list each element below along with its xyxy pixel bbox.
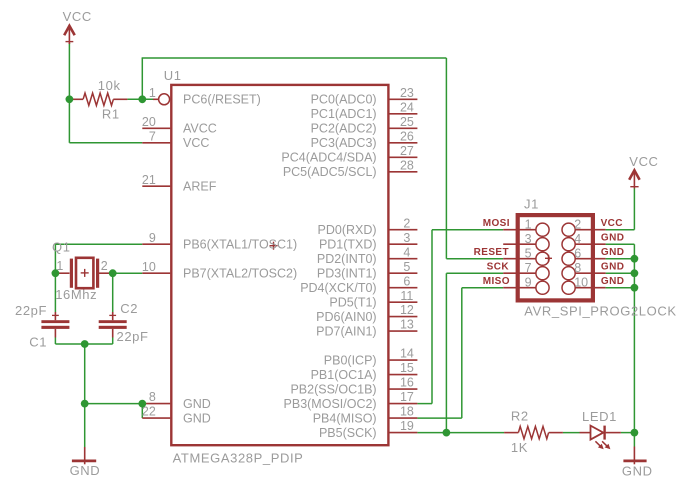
svg-text:3: 3 bbox=[525, 232, 532, 246]
svg-text:VCC: VCC bbox=[601, 218, 623, 229]
svg-text:VCC: VCC bbox=[629, 154, 658, 169]
J1 right pin numbers bbox=[574, 218, 588, 290]
wire GND net stem to ground bbox=[84, 404, 86, 447]
wire C2 bottom to GND net bbox=[112, 338, 114, 345]
wire VCC net right vertical bbox=[633, 189, 635, 230]
svg-text:PD2(INT0): PD2(INT0) bbox=[317, 252, 377, 266]
svg-text:1: 1 bbox=[149, 86, 156, 100]
svg-text:PB7(XTAL2/TOSC2): PB7(XTAL2/TOSC2) bbox=[183, 267, 297, 281]
junction crystal pin1/C1 bbox=[52, 269, 60, 277]
svg-text:PB3(MOSI/OC2): PB3(MOSI/OC2) bbox=[284, 397, 377, 411]
wire XTAL1 horizontal to pin 9 bbox=[55, 243, 142, 245]
svg-text:23: 23 bbox=[400, 86, 414, 100]
svg-text:PC6(/RESET): PC6(/RESET) bbox=[183, 93, 261, 107]
resistor R1 bbox=[69, 93, 127, 105]
svg-text:AVCC: AVCC bbox=[183, 122, 217, 136]
svg-text:GND: GND bbox=[70, 463, 101, 478]
svg-text:GND: GND bbox=[183, 411, 211, 425]
svg-text:4: 4 bbox=[574, 232, 581, 246]
svg-text:PD5(T1): PD5(T1) bbox=[329, 296, 376, 310]
svg-text:7: 7 bbox=[525, 261, 532, 275]
net label SCK bbox=[487, 262, 510, 273]
svg-text:10: 10 bbox=[142, 260, 156, 274]
svg-text:PC3(ADC3): PC3(ADC3) bbox=[311, 136, 377, 150]
svg-text:1: 1 bbox=[525, 218, 532, 232]
label R1 bbox=[102, 107, 120, 122]
net label GND (bottom left) bbox=[70, 463, 101, 478]
value label 22pF (C2) bbox=[117, 329, 149, 344]
svg-text:AREF: AREF bbox=[183, 180, 217, 194]
svg-text:16: 16 bbox=[400, 376, 414, 390]
wire crystal to C1 bbox=[54, 273, 56, 312]
wire RESET net to J1 pin 5 bbox=[446, 258, 503, 260]
wire GND rail stub pin 6 bbox=[606, 258, 635, 260]
net label GND (J1 pin10) bbox=[601, 276, 624, 287]
junction SCK/pin19/R2 bbox=[443, 429, 451, 437]
ground symbol GND (bottom right) bbox=[623, 447, 646, 465]
svg-text:9: 9 bbox=[149, 231, 156, 245]
junction crystal pin2/C2 bbox=[109, 269, 117, 277]
junction caps GND bbox=[81, 340, 89, 348]
net label MISO bbox=[483, 276, 510, 287]
svg-text:GND: GND bbox=[622, 463, 653, 478]
svg-text:15: 15 bbox=[400, 361, 414, 375]
svg-text:20: 20 bbox=[142, 115, 156, 129]
capacitor C1 bbox=[41, 312, 69, 338]
svg-text:10: 10 bbox=[574, 276, 588, 290]
svg-text:GND: GND bbox=[601, 233, 624, 244]
wire VCC net left vertical bbox=[68, 43, 70, 143]
wire VCC net to pin 7 bbox=[69, 142, 142, 144]
svg-text:PB2(SS/OC1B): PB2(SS/OC1B) bbox=[290, 382, 376, 396]
wire MISO net vertical bbox=[461, 288, 463, 418]
LED LED1 bbox=[580, 426, 621, 450]
svg-text:MISO: MISO bbox=[483, 276, 510, 287]
svg-text:25: 25 bbox=[400, 115, 414, 129]
svg-text:18: 18 bbox=[400, 405, 414, 419]
value label 1K bbox=[511, 440, 528, 455]
svg-text:PB1(OC1A): PB1(OC1A) bbox=[311, 368, 377, 382]
wire C1 bottom to GND net bbox=[54, 338, 56, 345]
svg-text:GND: GND bbox=[183, 397, 211, 411]
label C1 bbox=[29, 335, 47, 350]
Q1 pin number 2 bbox=[101, 259, 108, 273]
wire MISO net from pin 18 bbox=[417, 417, 461, 419]
wire XTAL2 crystal to pin 10 bbox=[113, 272, 143, 274]
svg-text:PC0(ADC0): PC0(ADC0) bbox=[311, 93, 377, 107]
capacitor C2 bbox=[99, 312, 127, 338]
value label 16Mhz bbox=[55, 287, 97, 302]
svg-text:C1: C1 bbox=[29, 335, 47, 350]
junction VCC/R1 left bbox=[66, 95, 74, 103]
svg-text:PD6(AIN0): PD6(AIN0) bbox=[316, 310, 376, 324]
power symbol VCC (top left) bbox=[64, 26, 75, 44]
label U1 bbox=[164, 68, 182, 83]
U1 right pin names bbox=[281, 93, 376, 440]
junction pin8/pin22 bbox=[138, 400, 146, 408]
svg-text:VCC: VCC bbox=[183, 136, 209, 150]
svg-text:GND: GND bbox=[601, 262, 624, 273]
wire GND rail from J1 pin 4 bbox=[606, 243, 635, 245]
svg-text:1K: 1K bbox=[511, 440, 528, 455]
net label RESET bbox=[474, 247, 509, 258]
wire VCC net J1 pin 2 bbox=[606, 229, 635, 231]
resistor R2 bbox=[504, 426, 563, 438]
svg-text:3: 3 bbox=[403, 231, 410, 245]
svg-text:2: 2 bbox=[574, 218, 581, 232]
junction GND/pin8 bbox=[81, 400, 89, 408]
U1 left pin numbers bbox=[142, 86, 156, 419]
svg-text:10k: 10k bbox=[98, 78, 121, 93]
wire GND net vertical bbox=[84, 344, 86, 404]
svg-text:PD4(XCK/T0): PD4(XCK/T0) bbox=[300, 281, 376, 295]
svg-text:GND: GND bbox=[601, 247, 624, 258]
junction R1/pin1/RESET bbox=[138, 95, 146, 103]
svg-text:SCK: SCK bbox=[487, 262, 510, 273]
net label VCC (top left) bbox=[63, 9, 92, 24]
svg-text:Q1: Q1 bbox=[52, 240, 71, 255]
wire MOSI net from pin 17 bbox=[417, 403, 432, 405]
value label ATMEGA328P_PDIP bbox=[173, 450, 304, 465]
svg-text:16Mhz: 16Mhz bbox=[55, 287, 97, 302]
connector J1 AVR_SPI_PROG2LOCK bbox=[503, 215, 605, 300]
net label GND (J1 pin8) bbox=[601, 262, 624, 273]
svg-text:24: 24 bbox=[400, 100, 414, 114]
wire R2 to LED1 bbox=[563, 432, 580, 434]
svg-text:PC1(ADC1): PC1(ADC1) bbox=[311, 107, 377, 121]
svg-text:PD7(AIN1): PD7(AIN1) bbox=[316, 324, 376, 338]
svg-text:12: 12 bbox=[400, 303, 414, 317]
svg-text:9: 9 bbox=[525, 276, 532, 290]
svg-text:PB6(XTAL1/TOSC1): PB6(XTAL1/TOSC1) bbox=[183, 238, 297, 252]
svg-text:14: 14 bbox=[400, 347, 414, 361]
J1 left pin numbers bbox=[525, 218, 532, 290]
junction GND rail pin10 bbox=[631, 284, 639, 292]
crystal Q1 bbox=[55, 258, 112, 288]
svg-text:22pF: 22pF bbox=[117, 329, 149, 344]
U1 right pin numbers bbox=[400, 86, 414, 433]
wire GND net to pin 8 bbox=[85, 403, 143, 405]
U1 left pin names bbox=[183, 93, 297, 426]
svg-text:7: 7 bbox=[149, 129, 156, 143]
svg-text:J1: J1 bbox=[524, 197, 539, 212]
wire GND net jog to pin 22 bbox=[141, 404, 143, 419]
svg-text:17: 17 bbox=[400, 390, 414, 404]
svg-text:AVR_SPI_PROG2LOCK: AVR_SPI_PROG2LOCK bbox=[524, 304, 676, 319]
wire LED1 to GND rail bbox=[621, 432, 635, 434]
wire XTAL1 vertical to crystal bbox=[54, 244, 56, 273]
net label VCC (top right) bbox=[629, 154, 658, 169]
value label 10k bbox=[98, 78, 121, 93]
wire MOSI net vertical bbox=[431, 230, 433, 404]
svg-text:28: 28 bbox=[400, 158, 414, 172]
svg-text:13: 13 bbox=[400, 318, 414, 332]
wire RESET net top horizontal bbox=[142, 57, 447, 59]
svg-text:21: 21 bbox=[142, 173, 156, 187]
ground symbol GND (bottom left) bbox=[72, 447, 96, 464]
wire SCK net pin 19 to R2 bbox=[417, 432, 504, 434]
wire GND rail stub pin 10 bbox=[606, 287, 635, 289]
wire GND net caps bottom horizontal bbox=[55, 343, 112, 345]
svg-text:PB5(SCK): PB5(SCK) bbox=[319, 426, 377, 440]
net label GND (bottom right) bbox=[622, 463, 653, 478]
wire SCK net vertical bbox=[445, 273, 447, 432]
value label 22pF (C1) bbox=[15, 303, 47, 318]
wire GND rail vertical bbox=[633, 244, 635, 446]
junction GND rail pin6 bbox=[631, 255, 639, 263]
wire MISO net to J1 pin 9 bbox=[462, 287, 503, 289]
label LED1 bbox=[582, 409, 617, 424]
svg-text:PC4(ADC4/SDA): PC4(ADC4/SDA) bbox=[281, 151, 376, 165]
svg-text:U1: U1 bbox=[164, 68, 182, 83]
svg-text:LED1: LED1 bbox=[582, 409, 617, 424]
junction LED/GND rail bbox=[631, 429, 639, 437]
Q1 pin number 1 bbox=[56, 259, 63, 273]
svg-text:R1: R1 bbox=[102, 107, 120, 122]
svg-text:2: 2 bbox=[101, 259, 108, 273]
net label MOSI bbox=[483, 218, 510, 229]
label J1 bbox=[524, 197, 539, 212]
net label GND (J1 pin4) bbox=[601, 233, 624, 244]
svg-text:4: 4 bbox=[403, 245, 410, 259]
svg-text:5: 5 bbox=[525, 247, 532, 261]
wire RESET net up from R1 bbox=[141, 58, 143, 99]
wire SCK net from J1 pin 7 bbox=[446, 272, 503, 274]
svg-text:27: 27 bbox=[400, 144, 414, 158]
svg-text:6: 6 bbox=[574, 247, 581, 261]
svg-text:GND: GND bbox=[601, 276, 624, 287]
svg-text:26: 26 bbox=[400, 129, 414, 143]
svg-text:ATMEGA328P_PDIP: ATMEGA328P_PDIP bbox=[173, 450, 304, 465]
svg-text:2: 2 bbox=[403, 216, 410, 230]
net label VCC (J1 pin2) bbox=[601, 218, 623, 229]
svg-text:8: 8 bbox=[574, 261, 581, 275]
net label GND (J1 pin6) bbox=[601, 247, 624, 258]
wire MOSI net to J1 pin 1 bbox=[432, 229, 503, 231]
wire R1 to pin 1 bbox=[127, 98, 153, 100]
wire GND rail stub pin 8 bbox=[606, 272, 635, 274]
power symbol VCC (top right) bbox=[629, 170, 639, 188]
label C2 bbox=[120, 301, 138, 316]
svg-text:PD3(INT1): PD3(INT1) bbox=[317, 267, 377, 281]
label Q1 bbox=[52, 240, 71, 255]
svg-text:PC5(ADC5/SCL): PC5(ADC5/SCL) bbox=[283, 165, 377, 179]
svg-text:C2: C2 bbox=[120, 301, 138, 316]
svg-text:MOSI: MOSI bbox=[483, 218, 510, 229]
svg-text:PD0(RXD): PD0(RXD) bbox=[318, 223, 377, 237]
svg-text:5: 5 bbox=[403, 260, 410, 274]
svg-text:11: 11 bbox=[400, 289, 413, 303]
wire crystal to C2 bbox=[112, 273, 114, 312]
svg-text:6: 6 bbox=[403, 274, 410, 288]
svg-text:22pF: 22pF bbox=[15, 303, 47, 318]
svg-text:VCC: VCC bbox=[63, 9, 92, 24]
svg-text:PB4(MISO): PB4(MISO) bbox=[313, 411, 377, 425]
op-amp U1 ATMEGA328P_PDIP body and pins bbox=[142, 85, 417, 445]
label R2 bbox=[511, 408, 529, 423]
svg-text:8: 8 bbox=[149, 390, 156, 404]
wire RESET net vertical down bbox=[445, 58, 447, 259]
value label AVR_SPI_PROG2LOCK bbox=[524, 304, 676, 319]
junction GND rail pin8 bbox=[631, 269, 639, 277]
svg-text:19: 19 bbox=[400, 419, 414, 433]
svg-text:R2: R2 bbox=[511, 408, 529, 423]
svg-text:PB0(ICP): PB0(ICP) bbox=[324, 353, 377, 367]
svg-text:RESET: RESET bbox=[474, 247, 509, 258]
svg-text:PC2(ADC2): PC2(ADC2) bbox=[311, 122, 377, 136]
svg-text:PD1(TXD): PD1(TXD) bbox=[319, 238, 377, 252]
